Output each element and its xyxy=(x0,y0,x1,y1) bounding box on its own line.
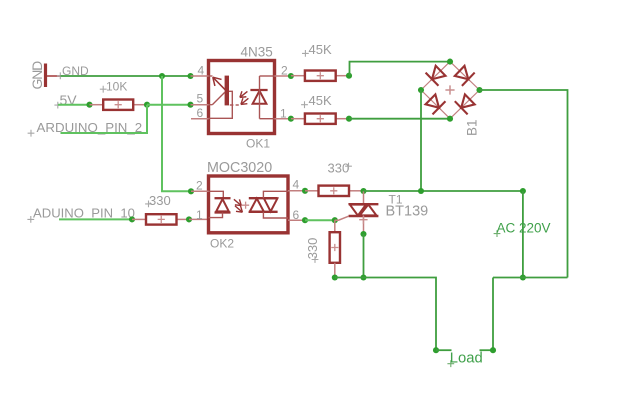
wire triac net bottom to load left xyxy=(335,278,436,351)
label 45K lower xyxy=(301,101,308,108)
resistor 330 snubber lead bottom xyxy=(334,263,336,278)
label 330 input xyxy=(145,201,152,208)
resistor 330 gate leads xyxy=(305,190,319,192)
T1 gate lead xyxy=(335,216,349,220)
OK1 dashed optical axis xyxy=(230,104,234,106)
node 330-OK1pin1 junction xyxy=(186,216,192,222)
node 45K lower right xyxy=(346,116,352,122)
pin lead OK2 pin2 xyxy=(191,190,209,192)
OK2 LED triangle xyxy=(216,199,229,211)
svg-text:330: 330 xyxy=(328,161,350,176)
node snubber bottom xyxy=(332,274,338,280)
svg-text:ADUINO_PIN_10: ADUINO_PIN_10 xyxy=(33,206,135,221)
svg-text:2: 2 xyxy=(281,64,288,78)
wire pin6 to gate node xyxy=(305,219,335,221)
bridge B1 diode top-right xyxy=(462,73,475,86)
wire AC 220V vertical xyxy=(522,191,524,278)
wire 45K lower to B1 bottom xyxy=(349,118,450,120)
junction on GND wire xyxy=(159,73,165,79)
op-amp OK1 box 4N35 xyxy=(209,61,275,134)
OK2 LED route to pin1 xyxy=(209,213,223,218)
svg-text:5: 5 xyxy=(197,91,204,105)
OK1 light arrow 2 xyxy=(241,98,249,104)
node pin2-45K xyxy=(288,73,294,79)
node triac gate-net junction xyxy=(360,188,366,194)
OK2 triac right triangle xyxy=(264,198,278,211)
wire load left stub xyxy=(436,349,452,351)
node pin5 junction xyxy=(187,102,193,108)
resistor 45K lower xyxy=(305,114,336,124)
OK2 triac route to pin4 xyxy=(263,191,288,198)
svg-text:1: 1 xyxy=(196,208,203,222)
net label GND xyxy=(57,72,64,79)
svg-text:AC 220V: AC 220V xyxy=(497,221,551,236)
node B1 top xyxy=(447,59,453,65)
resistor 330 gate xyxy=(319,186,350,196)
svg-text:1: 1 xyxy=(280,107,287,121)
svg-text:OK1: OK1 xyxy=(246,137,270,151)
svg-text:4: 4 xyxy=(198,63,205,77)
wire net GND horizontal xyxy=(61,75,191,77)
node OK2 pin6 xyxy=(302,217,308,223)
node AC wire at B1-left branch xyxy=(418,188,424,194)
pin lead OK2 pin6 xyxy=(288,219,305,221)
OK1 base route to pin6 xyxy=(209,91,233,118)
OK1 LED top to pin2 xyxy=(260,75,275,77)
net label ARDUINO_PIN_2 xyxy=(28,130,35,137)
svg-text:45K: 45K xyxy=(309,93,332,108)
pin lead OK1 pin6 stub xyxy=(191,118,209,120)
node 45K upper right xyxy=(346,73,352,79)
svg-text:45K: 45K xyxy=(309,42,332,57)
T1 top bar xyxy=(349,203,379,205)
net label ADUINO_PIN_10 xyxy=(27,216,34,223)
OK1 light arrow 1 xyxy=(240,91,248,97)
svg-text:BT139: BT139 xyxy=(386,204,429,220)
label 45K upper xyxy=(302,50,309,57)
OK1 phototransistor base bar xyxy=(225,76,229,106)
OK2 origin cross xyxy=(242,202,249,209)
T1 bottom lead xyxy=(363,216,365,234)
svg-text:330: 330 xyxy=(149,193,171,208)
OK2 LED route from pin2 xyxy=(209,191,224,198)
svg-text:4: 4 xyxy=(293,178,300,192)
node gate node xyxy=(332,217,338,223)
node pin4 junction xyxy=(187,73,193,79)
label 10K xyxy=(100,86,107,93)
bridge B1 diode top-left xyxy=(426,73,439,86)
svg-text:330: 330 xyxy=(305,238,320,260)
node pin1-45K xyxy=(288,116,294,122)
wire B1 left down to triac net xyxy=(420,90,422,191)
node 10K-right junction xyxy=(144,102,150,108)
T1 origin cross xyxy=(359,216,367,224)
svg-text:10K: 10K xyxy=(106,79,127,93)
resistor 10K leads xyxy=(90,104,104,106)
svg-text:4N35: 4N35 xyxy=(241,44,273,59)
wire 10K to OK1 pin5 xyxy=(147,104,191,106)
wire load right stub xyxy=(480,349,494,351)
net label AC 220V xyxy=(494,230,501,237)
OK1 phototransistor emitter arrow to pin4 xyxy=(209,75,213,77)
supply symbol GND (vertical bar) xyxy=(44,64,47,88)
bridge B1 diode bottom-left xyxy=(433,101,446,114)
OK2 LED cathode bar xyxy=(215,197,231,199)
node 5V-resistor xyxy=(86,102,92,108)
resistor 330 input xyxy=(146,214,177,224)
pin lead OK1 pin2 xyxy=(275,75,291,77)
wire AC bottom to right rail xyxy=(523,277,568,279)
resistor 330 (input) leads xyxy=(132,218,146,220)
wire ARDUINO_PIN_2 xyxy=(61,105,148,133)
svg-text:6: 6 xyxy=(293,208,300,222)
svg-text:6: 6 xyxy=(197,106,204,120)
node B1 right xyxy=(476,87,482,93)
wire 5V xyxy=(58,104,90,106)
pin lead OK1 pin4 xyxy=(191,75,209,77)
T1 left triangle xyxy=(350,205,366,216)
node AC bottom junction xyxy=(520,274,526,280)
node T1 bottom xyxy=(360,231,366,237)
resistor 45K upper leads xyxy=(291,75,305,77)
pin lead OK1 pin5 xyxy=(191,104,209,106)
T1 right triangle xyxy=(360,205,377,216)
OK1 LED vertical lead xyxy=(259,76,261,119)
bridge B1 plus mark xyxy=(445,85,454,94)
wire AC junction to load right xyxy=(493,277,523,279)
resistor 10K xyxy=(103,100,133,110)
resistor 45K lower leads xyxy=(291,118,305,120)
bridge B1 diode bottom-right xyxy=(455,101,468,114)
OK1 LED cathode bar xyxy=(250,89,267,91)
pin lead OK1 pin1 xyxy=(275,118,291,120)
wire 45K upper to B1 top xyxy=(350,62,451,76)
OK2 light arrow 2 xyxy=(235,206,242,212)
svg-text:B1: B1 xyxy=(465,119,480,136)
OK2 triac bottom bar xyxy=(249,211,278,213)
OK1 phototransistor collector to pin5 xyxy=(212,92,225,105)
OK2 LED anode bar xyxy=(215,211,231,213)
net label 5V xyxy=(54,102,61,109)
node T1 bottom net xyxy=(360,274,366,280)
svg-text:Load: Load xyxy=(450,350,483,366)
transistor T1 triac top lead xyxy=(363,191,365,204)
net label Load xyxy=(447,360,454,367)
svg-text:2: 2 xyxy=(196,178,203,192)
node load left terminal xyxy=(433,347,439,353)
resistor 330 snubber xyxy=(330,232,340,263)
svg-text:OK2: OK2 xyxy=(210,237,234,251)
svg-text:MOC3020: MOC3020 xyxy=(207,160,272,176)
node OK2 pin4 xyxy=(302,188,308,194)
resistor 330 snubber lead top xyxy=(334,220,336,232)
wire triac net to AC corner xyxy=(364,190,523,192)
node OK2 pin2 junction xyxy=(188,188,194,194)
wire B1 right to AC right rail xyxy=(480,90,568,278)
node B1 left xyxy=(418,87,424,93)
op-amp OK2 box MOC3020 xyxy=(209,176,289,233)
OK1 LED triangle xyxy=(253,91,267,104)
wire T1 bottom down xyxy=(363,234,365,278)
pin lead OK2 pin4 xyxy=(288,190,305,192)
OK1 LED bottom to pin1 xyxy=(260,118,275,120)
wire load right vertical xyxy=(492,278,494,351)
node load right terminal xyxy=(490,347,496,353)
node PIN10-resistor xyxy=(129,216,135,222)
T1 bottom bar xyxy=(349,215,379,217)
node AC corner xyxy=(520,188,526,194)
bridge B1 edge lines xyxy=(421,62,450,90)
wire GND branch down to OK2 pin2 xyxy=(162,76,191,191)
resistor 45K upper xyxy=(305,71,336,81)
OK2 triac top bar xyxy=(249,197,278,199)
svg-text:GND: GND xyxy=(29,61,45,90)
OK2 triac left triangle xyxy=(250,199,264,212)
pin lead OK2 pin1 xyxy=(189,218,209,220)
wire ADUINO_PIN_10 xyxy=(59,218,132,220)
OK2 light arrow 1 xyxy=(234,199,241,205)
node B1 bottom xyxy=(447,116,453,122)
OK2 triac route to pin6 xyxy=(263,212,288,218)
